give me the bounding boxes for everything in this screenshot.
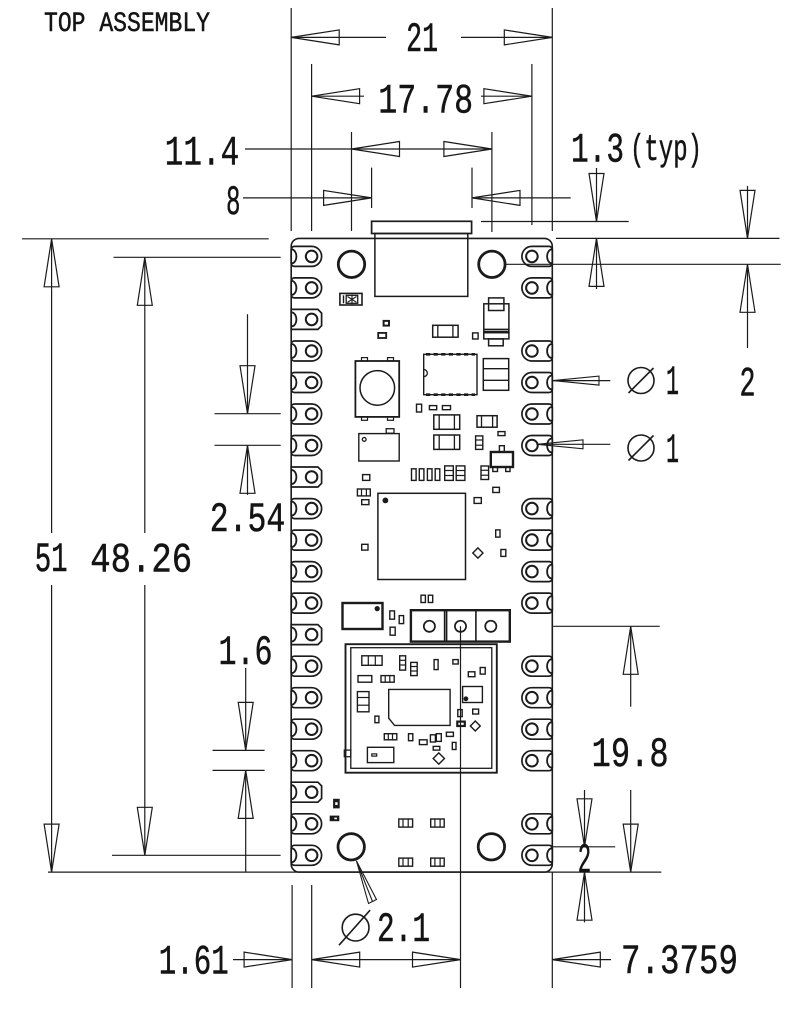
small resistor row under regulator xyxy=(417,404,422,412)
dimension 48.26 line and arrows xyxy=(144,257,146,308)
left castellated pads pin column xyxy=(291,246,321,865)
extension line pad column left (17.78) xyxy=(311,64,313,231)
diameter symbol 1a xyxy=(628,368,654,394)
passive right of RP2040 c xyxy=(496,530,500,537)
extension line USB front edge (1.3 typ) xyxy=(481,221,629,223)
dimension 8 line xyxy=(243,197,372,199)
diameter symbol 1b xyxy=(628,435,654,461)
flash memory U3 xyxy=(343,603,383,629)
module passive 9 xyxy=(381,676,394,683)
extension line board bottom extended xyxy=(48,871,661,873)
leader line debug middle pin to bottom xyxy=(460,626,462,988)
svg-text:1: 1 xyxy=(666,427,679,475)
passive right of RP2040 d xyxy=(501,550,506,557)
passives right of flash xyxy=(390,611,395,619)
extension line board top extended right xyxy=(556,237,780,239)
mounting hole top-left xyxy=(338,251,364,277)
USB connector body xyxy=(375,234,468,297)
module passive 7 xyxy=(480,668,485,675)
dimension 11.4 line xyxy=(245,148,492,150)
module passive 1 xyxy=(362,656,382,666)
extension line pad column right (17.78) xyxy=(531,64,533,225)
dimension 51 line and arrows xyxy=(51,239,53,289)
2-pad above crystal xyxy=(386,429,394,434)
dimension 8 arrows xyxy=(324,190,372,205)
passive right of RP2040 b xyxy=(474,498,481,504)
module diamond passive xyxy=(470,721,480,731)
module diamond passive 2 xyxy=(433,753,444,764)
svg-text:TOP ASSEMBLY: TOP ASSEMBLY xyxy=(44,9,210,40)
svg-text:19.8: 19.8 xyxy=(592,731,669,779)
passives above debug header xyxy=(421,595,425,602)
mounting hole bottom-right xyxy=(478,834,504,860)
svg-text:7.3759: 7.3759 xyxy=(621,938,738,986)
leader diameter 1 hole xyxy=(537,443,610,445)
dimension 21 arrows xyxy=(291,30,339,45)
extension line first pad row center (48.26 top) xyxy=(114,256,281,258)
svg-text:1.61: 1.61 xyxy=(159,939,229,987)
module passive 20 xyxy=(446,732,453,736)
module passive 15 xyxy=(384,734,397,740)
capacitor C5 xyxy=(434,435,460,449)
capacitor C4 xyxy=(434,415,460,429)
dimension 1.61 line and arrows xyxy=(233,959,292,961)
wireless module inner edge xyxy=(351,648,492,769)
debug pin 1 xyxy=(424,621,435,632)
svg-text:11.4: 11.4 xyxy=(165,129,239,177)
right castellated pads pin column xyxy=(522,246,552,865)
debug pin 3 xyxy=(485,621,496,632)
leader diameter 1 castellation xyxy=(553,380,610,382)
svg-text:1.6: 1.6 xyxy=(219,629,273,677)
transistor Q1 SOT-23 xyxy=(491,452,513,467)
extension line top mounting hole center (2) xyxy=(506,263,781,265)
svg-text:(typ): (typ) xyxy=(630,130,702,172)
passive right of RP2040 a xyxy=(493,487,500,492)
module passive 16 xyxy=(409,734,413,741)
crystal X1 xyxy=(359,434,399,461)
svg-text:2: 2 xyxy=(740,361,756,409)
svg-text:1: 1 xyxy=(666,359,679,407)
dimension 1.3 typ leader and arrows xyxy=(596,168,598,222)
passive row above RP2040 xyxy=(412,469,417,481)
svg-text:48.26: 48.26 xyxy=(90,537,192,585)
leader diameter 2.1 mounting hole xyxy=(357,861,377,904)
capacitor 2-pad vertical right xyxy=(481,466,489,480)
extension line board top extended left xyxy=(22,238,269,240)
capacitor C top middle xyxy=(433,325,458,337)
extension lines pad pitch (2.54) xyxy=(215,413,281,415)
PCB board outline xyxy=(291,238,552,872)
module passive 10 xyxy=(357,692,369,712)
passive left of RP2040 b xyxy=(357,489,370,496)
extension line board right edge (bottom) xyxy=(551,872,553,988)
CYW43439 wireless IC xyxy=(389,689,450,725)
module passive 12 xyxy=(458,710,462,717)
capacitor small right of C xyxy=(473,333,479,339)
mounting hole bottom-left xyxy=(338,834,364,860)
debug header J1 SWD pads xyxy=(411,610,510,641)
module passive 14 xyxy=(457,722,465,726)
extension line USB right (8) xyxy=(471,168,473,208)
extension line board left edge (bottom) xyxy=(291,885,293,988)
dimension 1.6 arrows xyxy=(245,668,247,750)
module small IC right xyxy=(463,687,483,703)
module passive 6 xyxy=(468,672,475,677)
dimension 19.8 line and arrows xyxy=(630,626,632,706)
module passive 19 xyxy=(436,734,441,742)
regulator IC U2 xyxy=(424,354,477,394)
svg-text:51: 51 xyxy=(35,536,68,584)
dimension 2 top-right arrows xyxy=(747,186,749,238)
USB connector shield overhang plate xyxy=(372,221,472,233)
extension lines pad height (1.6) xyxy=(213,749,265,751)
dimension 17.78 arrows xyxy=(312,89,360,104)
dimension 2.54 arrows xyxy=(247,314,249,414)
wireless module shield outline xyxy=(346,644,497,773)
extension line pad hole center (bottom) xyxy=(311,885,313,988)
dimension 17.78 line xyxy=(312,95,364,97)
extension line last pad row center (48.26 bottom) xyxy=(112,854,281,856)
extension line board left edge (top) xyxy=(290,8,292,231)
passive left of RP2040 a xyxy=(363,475,370,481)
extension line board right edge (top) xyxy=(551,8,553,231)
module antenna block xyxy=(367,747,393,762)
capacitor bottom row 4 xyxy=(431,858,445,866)
passive bottom-left a xyxy=(334,799,339,807)
passive bottom-left b xyxy=(330,816,338,820)
module passive 21 xyxy=(433,746,440,750)
resistor R near LED xyxy=(384,321,389,326)
capacitor C6 xyxy=(477,416,497,428)
extension line debug pin row center (19.8) xyxy=(553,625,660,627)
extension line mounting hole right (11.4) xyxy=(491,132,493,232)
svg-text:21: 21 xyxy=(406,16,438,64)
module passive 22 xyxy=(452,742,456,749)
extension line USB left (8) xyxy=(371,168,373,208)
RP2040 main IC U1 xyxy=(378,493,466,579)
dimension 21 line xyxy=(291,36,386,38)
inductor L1 stack xyxy=(489,298,504,311)
svg-text:2.1: 2.1 xyxy=(377,906,430,954)
svg-text:17.78: 17.78 xyxy=(378,77,473,125)
debug pin 2 xyxy=(455,621,466,632)
passive left of RP2040 c xyxy=(362,500,369,505)
extension line mounting hole left (11.4) xyxy=(351,132,353,231)
LED D1 xyxy=(340,293,362,305)
inductor pads 3-cell component xyxy=(483,359,508,391)
svg-text:1.3: 1.3 xyxy=(571,127,624,175)
diameter symbol 2.1 xyxy=(342,914,369,941)
resistor R2 xyxy=(378,333,386,338)
BOOTSEL button xyxy=(355,361,399,417)
module passive 17 xyxy=(419,740,427,745)
capacitor bottom row 1 xyxy=(399,819,413,827)
extension line bottom mounting hole center (2) xyxy=(552,846,615,848)
module passive 18 xyxy=(430,735,435,742)
dimension 7.3759 line and arrows xyxy=(360,959,461,961)
module passive 8 xyxy=(358,676,372,683)
capacitor bottom row 3 xyxy=(399,858,413,866)
module passive 2 xyxy=(400,656,406,670)
diamond passive right of RP2040 xyxy=(473,548,483,558)
capacitor 2-pad vertical xyxy=(476,436,483,450)
module passive 11 xyxy=(375,716,379,723)
dimension 2 bottom-right arrows xyxy=(584,790,586,847)
module passive 5 xyxy=(453,660,458,664)
capacitor bottom row 2 xyxy=(431,819,445,827)
dimension 11.4 arrows xyxy=(352,142,400,157)
module passive 4 xyxy=(434,660,438,670)
wireless module side tab xyxy=(344,750,351,757)
svg-text:2: 2 xyxy=(578,837,591,885)
module passive 3 xyxy=(411,662,418,675)
mounting hole top-right xyxy=(479,251,505,277)
svg-text:8: 8 xyxy=(226,179,241,227)
module passive 13 xyxy=(473,709,479,714)
passive left of RP2040 d xyxy=(362,544,368,550)
resistor tiny right xyxy=(498,432,505,436)
svg-text:2.54: 2.54 xyxy=(210,496,285,544)
